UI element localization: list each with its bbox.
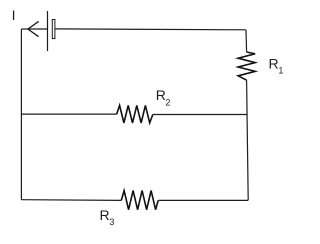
svg-text:2: 2	[165, 97, 170, 107]
svg-text:R: R	[100, 207, 110, 223]
battery B1	[48, 11, 55, 51]
svg-text:R: R	[269, 55, 279, 71]
svg-text:I: I	[12, 7, 16, 23]
wire right upper	[245, 30, 248, 52]
wire bottom left segment	[21, 199, 121, 202]
svg-text:R: R	[156, 87, 166, 103]
svg-text:3: 3	[109, 217, 114, 227]
svg-text:1: 1	[278, 65, 283, 75]
current arrow	[28, 22, 38, 37]
wire middle left segment	[21, 113, 116, 115]
resistor R1	[238, 52, 255, 80]
wire left side	[20, 29, 22, 200]
wire top-left segment	[21, 28, 47, 30]
wire bottom right segment	[158, 199, 248, 201]
label R2	[156, 87, 171, 108]
wire top-right segment	[55, 28, 246, 31]
label R1	[269, 55, 284, 75]
resistor R3	[121, 191, 158, 210]
wire middle right segment	[153, 114, 247, 116]
label R3	[100, 207, 115, 227]
wire right lower	[247, 80, 249, 200]
resistor R2	[117, 105, 153, 123]
